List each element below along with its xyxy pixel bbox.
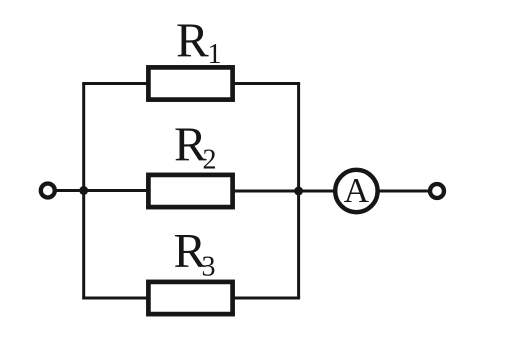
wire (top branch, right segment) [231, 82, 300, 85]
wire (left lead from terminal to resistor bank, middle branch) [55, 189, 150, 192]
wire (bottom branch, right segment) [231, 297, 300, 300]
terminal T1 (left open circle) [41, 184, 55, 198]
resistor R1 (body) [148, 67, 232, 99]
wire (top branch, left segment) [82, 82, 150, 85]
svg-text:1: 1 [208, 39, 222, 70]
label R3 [174, 223, 216, 283]
ammeter A1 (circle) [335, 170, 377, 212]
svg-text:3: 3 [202, 252, 216, 283]
node B (right junction dot) [294, 187, 303, 196]
wire (middle branch, right segment to ammeter) [231, 190, 336, 193]
wire (right bus vertical) [297, 84, 300, 299]
terminal T2 (right open circle) [430, 184, 444, 198]
svg-text:A: A [344, 171, 370, 210]
svg-text:R: R [176, 13, 209, 68]
label R2 [174, 117, 217, 176]
wire (left bus vertical) [82, 84, 85, 299]
resistor R2 (body) [148, 175, 232, 207]
label R1 [176, 13, 222, 71]
wire (ammeter to right terminal) [376, 190, 429, 193]
resistor R3 (body) [148, 282, 232, 314]
node A (left junction dot) [79, 186, 88, 195]
wire (bottom branch, left segment) [82, 297, 150, 300]
svg-text:2: 2 [203, 145, 217, 176]
